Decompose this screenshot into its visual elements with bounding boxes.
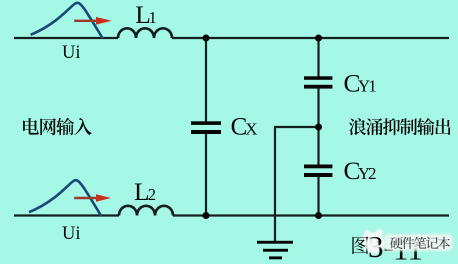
label 浪涌抑制输出 (surge suppression output): [349, 118, 366, 135]
node: junction top wire / CY1: [315, 35, 322, 42]
watermark text 硬件笔记本 with white halo: [384, 234, 453, 251]
caption 图3-11: [352, 236, 368, 254]
svg-text:Ui: Ui: [62, 43, 81, 63]
node: junction bottom wire / Cx: [203, 212, 210, 219]
inductor L1: [118, 28, 172, 38]
arrow top (red, rightward): [74, 20, 98, 22]
wire: Cx branch upper: [205, 38, 207, 122]
surge pulse Ui top (blue waveform): [31, 3, 103, 39]
wire: CY branch bottom: [317, 177, 319, 216]
wire: bottom line left segment: [14, 214, 119, 216]
wire: top line left segment: [14, 37, 118, 39]
node: junction bottom wire / CY2: [315, 212, 322, 219]
capacitor CY2: [304, 165, 332, 169]
wire: bottom line right segment: [173, 214, 449, 216]
ground symbol: [257, 241, 293, 244]
inductor L2: [119, 206, 173, 216]
surge pulse Ui bottom (blue waveform): [29, 180, 101, 216]
capacitor CY1: [304, 76, 332, 80]
node: junction top wire / Cx: [203, 35, 210, 42]
watermark logo blob front part (eats lower-left of the 3): [365, 238, 379, 253]
svg-text:Ui: Ui: [62, 224, 81, 244]
wire: top line right segment: [172, 37, 449, 39]
capacitor Cx: [191, 121, 221, 125]
watermark logo blob (behind caption): [363, 229, 385, 253]
wire: Cx branch lower: [205, 134, 207, 216]
wire: CY branch top: [317, 38, 319, 77]
wire: ground tap horizontal: [275, 126, 319, 128]
label 电网输入 (mains input): [23, 118, 39, 135]
wire: ground tap vertical: [274, 126, 276, 242]
arrow bottom (red, rightward): [74, 197, 98, 199]
wire: CY mid segment: [317, 88, 319, 164]
node: junction CY1/CY2 midpoint: [315, 124, 322, 131]
